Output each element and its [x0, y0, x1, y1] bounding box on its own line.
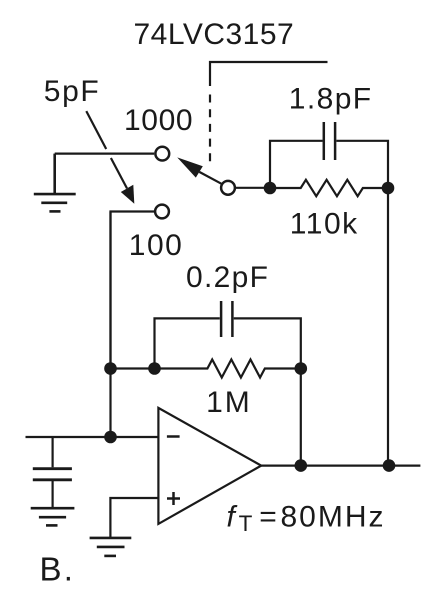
switch pole contact [221, 181, 235, 195]
junction node G output right [383, 459, 396, 472]
wire op-amp minus input [26, 436, 159, 438]
svg-text:fT=80MHz: fT=80MHz [227, 500, 386, 536]
dashed control line [209, 95, 211, 162]
switch wiper arrow [177, 157, 221, 183]
svg-text:1M: 1M [206, 386, 252, 419]
svg-text:1000: 1000 [124, 104, 193, 137]
5pF pointer arrow [86, 111, 134, 204]
capacitor C1 1.8pF [324, 122, 335, 160]
switch throw contact 100 [155, 205, 169, 219]
op-amp U1 [158, 408, 261, 524]
wire throw-100 to node [111, 212, 155, 369]
capacitor C2 0.2pF [221, 301, 232, 337]
wire node D to output [300, 369, 302, 466]
junction node E minus input [104, 431, 117, 444]
wire node B to output [387, 188, 389, 466]
wire node A riser to cap C1 [270, 141, 323, 188]
junction node C2 cap tap [148, 362, 161, 375]
junction node C1 on mid rail [104, 362, 117, 375]
wire op-amp plus input [110, 498, 158, 537]
op-amp minus symbol [167, 435, 180, 438]
svg-text:0.2pF: 0.2pF [186, 261, 269, 294]
svg-text:B.: B. [40, 551, 76, 588]
resistor R2 1M [111, 360, 301, 378]
op-amp plus symbol [167, 492, 180, 505]
svg-text:74LVC3157: 74LVC3157 [134, 18, 295, 51]
junction node F output left [295, 459, 308, 472]
wire node C riser to cap C2 [155, 318, 220, 368]
junction node B [382, 182, 395, 195]
capacitor C3 input [33, 437, 72, 507]
ground G1 [34, 154, 76, 212]
wire cap C1 to node B riser [336, 141, 388, 188]
resistor R1 110k [270, 180, 388, 196]
svg-text:110k: 110k [290, 208, 359, 241]
wire inverting input rail [109, 212, 111, 438]
wire cap C2 to node D riser [234, 318, 301, 368]
wire pole to node A [235, 187, 270, 189]
ground G3 [90, 538, 132, 556]
junction node D [295, 362, 308, 375]
svg-text:5pF: 5pF [44, 75, 101, 108]
junction node A [264, 182, 277, 195]
ground G2 [31, 508, 75, 525]
IC bracket line [210, 62, 328, 86]
svg-text:1.8pF: 1.8pF [289, 82, 373, 115]
svg-text:100: 100 [129, 229, 184, 262]
wire switch common [55, 153, 155, 155]
switch throw contact 1000 [155, 147, 169, 161]
wire output [261, 465, 420, 467]
